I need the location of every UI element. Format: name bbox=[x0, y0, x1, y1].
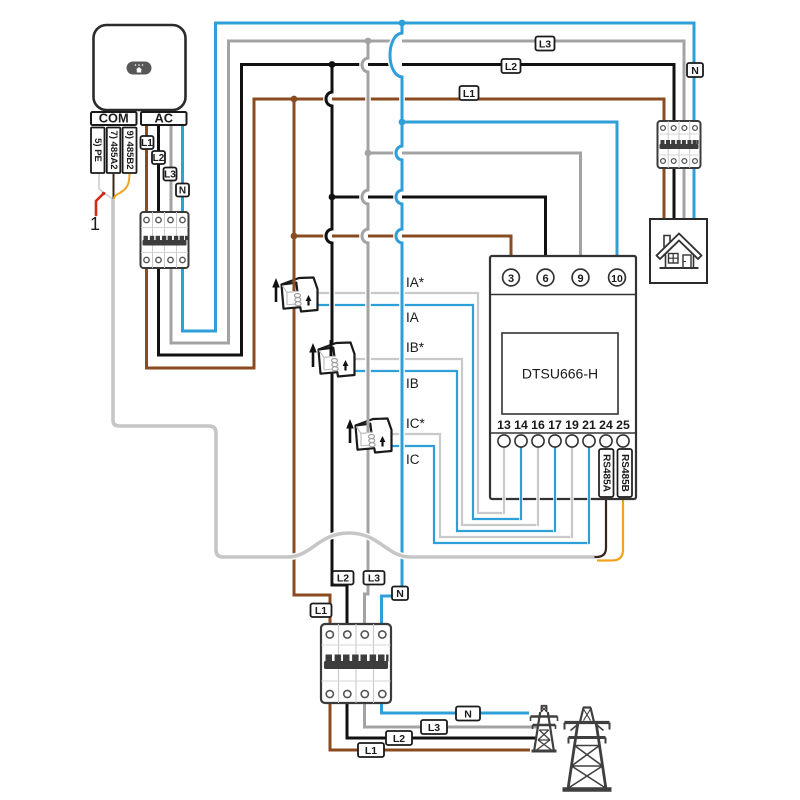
svg-text:16: 16 bbox=[531, 418, 545, 432]
CT C current transformer on L3 bbox=[346, 416, 391, 453]
svg-text:6: 6 bbox=[542, 273, 548, 285]
wire riser terminal 17 bbox=[553, 447, 557, 532]
wire PE white bbox=[99, 174, 113, 200]
label N (above bottom breaker) bbox=[392, 587, 408, 601]
wire IC (CT C blue to terminal 21) bbox=[391, 446, 589, 543]
label L3 (above bottom breaker) bbox=[364, 571, 385, 585]
svg-text:L1: L1 bbox=[463, 88, 475, 100]
label L2 (above bottom breaker) bbox=[333, 571, 354, 585]
svg-text:1: 1 bbox=[90, 214, 100, 234]
meter terminal 10 bbox=[609, 269, 626, 286]
meter bottom terminal numbers bbox=[497, 418, 630, 432]
svg-text:L1: L1 bbox=[141, 138, 153, 149]
svg-text:14: 14 bbox=[514, 418, 528, 432]
house load box bbox=[650, 219, 707, 283]
svg-text:COM: COM bbox=[99, 111, 129, 126]
svg-text:IB: IB bbox=[406, 376, 419, 391]
svg-text:N: N bbox=[691, 65, 699, 77]
CT B current transformer on L2 bbox=[309, 340, 354, 377]
CT A current transformer on L1 bbox=[272, 275, 317, 312]
wire IA (CT A blue to terminal 14) bbox=[317, 305, 521, 519]
grid tower small bbox=[531, 706, 558, 752]
RS485B port label bbox=[618, 449, 633, 497]
label L3 (inverter AC) bbox=[164, 168, 177, 181]
label N (top bus right) bbox=[687, 63, 703, 77]
svg-text:L3: L3 bbox=[428, 722, 440, 734]
svg-text:21: 21 bbox=[582, 418, 596, 432]
RS485 communication cable (thick gray) from COM to meter bbox=[113, 199, 595, 557]
svg-text:L3: L3 bbox=[368, 573, 380, 585]
svg-text:9: 9 bbox=[577, 273, 583, 285]
junction node L3 meter branch bbox=[365, 150, 372, 157]
callout wire 1 (red) bbox=[96, 194, 104, 216]
svg-text:IC: IC bbox=[406, 452, 420, 467]
meter terminal 3 bbox=[503, 269, 520, 286]
wire N blue branch: down with hops, to bottom breaker, grid bbox=[382, 23, 530, 713]
wire L2 black branch to meter terminal 6 bbox=[332, 197, 546, 270]
house icon bbox=[657, 234, 702, 269]
meter display DTSU666-H bbox=[502, 333, 618, 414]
wire L3 gray: inverter AC through breaker, U-turn, top bus, right breaker, house bbox=[171, 41, 684, 343]
label L1 (top bus) bbox=[460, 86, 479, 100]
wire IC* (CT C white to terminal 19) bbox=[391, 434, 572, 537]
wire L1 brown branch to meter terminal 3 bbox=[294, 236, 511, 270]
wire RS485A dark brown from terminal 24 bbox=[595, 496, 607, 557]
junction node L3 top bbox=[365, 38, 372, 45]
meter terminal 6 bbox=[537, 269, 554, 286]
svg-text:L2: L2 bbox=[153, 153, 165, 164]
label L3 (grid line) bbox=[421, 720, 447, 734]
wire L2 black branch: down with hops to CT B, bottom breaker, grid bbox=[326, 65, 536, 739]
label L1 (inverter AC) bbox=[141, 136, 154, 149]
wire riser terminal 14 bbox=[519, 447, 523, 520]
wire N blue: inverter AC through breaker, U-turn, top bus, right breaker, house bbox=[183, 23, 695, 331]
svg-text:AC: AC bbox=[154, 111, 172, 126]
label L1 (grid line) bbox=[358, 743, 384, 757]
svg-text:IC*: IC* bbox=[406, 416, 426, 431]
COM port box bbox=[91, 111, 137, 126]
wire L3 gray branch to meter terminal 9 bbox=[368, 153, 581, 270]
label L1 (above bottom breaker) bbox=[311, 604, 332, 618]
wire RS485B orange from terminal 25 bbox=[597, 496, 623, 561]
svg-text:10: 10 bbox=[611, 273, 623, 285]
svg-text:13: 13 bbox=[497, 418, 511, 432]
svg-text:L3: L3 bbox=[539, 38, 551, 50]
circuit breaker NFB3 (bottom, grid side) bbox=[321, 624, 391, 703]
energy meter U1 DTSU666-H bbox=[490, 256, 636, 499]
svg-text:24: 24 bbox=[599, 418, 613, 432]
junction node N meter branch bbox=[399, 119, 406, 126]
label L2 (grid line) bbox=[386, 731, 412, 745]
svg-text:25: 25 bbox=[616, 418, 630, 432]
svg-text:7) 485A2: 7) 485A2 bbox=[108, 130, 119, 169]
inverter body bbox=[94, 25, 186, 110]
junction node N top bbox=[399, 20, 406, 27]
svg-text:RS485A: RS485A bbox=[601, 454, 612, 492]
AC port box bbox=[141, 111, 187, 126]
wire L2 black: inverter AC through breaker, U-turn, top bus, right breaker, house bbox=[159, 65, 675, 356]
svg-text:5) PE: 5) PE bbox=[92, 138, 103, 162]
RS485A port label bbox=[599, 449, 614, 497]
inverter logo pill bbox=[127, 62, 152, 75]
pin 5) PE bbox=[91, 128, 105, 174]
label L2 (inverter AC) bbox=[152, 151, 165, 164]
wire RS485B2 orange bbox=[114, 174, 130, 200]
label N (inverter AC) bbox=[176, 184, 189, 197]
label L2 (top bus) bbox=[502, 59, 521, 73]
grid tower large bbox=[563, 708, 612, 790]
wire IA* (CT A white to terminal 13) bbox=[317, 293, 504, 513]
svg-text:IA: IA bbox=[406, 310, 419, 325]
wire IB* (CT B white to terminal 16) bbox=[354, 359, 538, 525]
svg-text:IA*: IA* bbox=[406, 275, 425, 290]
circuit breaker NFB1 (below inverter AC) bbox=[141, 212, 189, 268]
wire N blue branch to meter terminal 10 bbox=[402, 122, 617, 270]
wire L3 gray branch: down with hops to CT C, bottom breaker, grid bbox=[362, 41, 538, 727]
pin 9) 485B2 bbox=[123, 128, 137, 174]
svg-text:3: 3 bbox=[508, 273, 514, 285]
pin 7) 485A2 bbox=[107, 128, 121, 174]
svg-text:DTSU666-H: DTSU666-H bbox=[522, 366, 598, 382]
wire IB (CT B blue to terminal 17) bbox=[354, 371, 555, 531]
svg-text:N: N bbox=[396, 588, 404, 600]
label N (grid line) bbox=[456, 707, 480, 721]
junction node L2 top bbox=[329, 61, 336, 68]
svg-text:17: 17 bbox=[548, 418, 562, 432]
wire L1 brown branch: down to CT A, bottom breaker, to grid bbox=[294, 99, 530, 750]
wire riser terminal 13 bbox=[502, 447, 506, 514]
wire riser terminal 19 bbox=[570, 447, 574, 538]
svg-text:RS485B: RS485B bbox=[619, 454, 630, 492]
junction node L1 meter branch bbox=[291, 233, 298, 240]
svg-text:L2: L2 bbox=[393, 733, 405, 745]
junction node L2 meter branch bbox=[329, 194, 336, 201]
label L3 (top bus) bbox=[536, 37, 555, 51]
svg-text:IB*: IB* bbox=[406, 340, 425, 355]
svg-text:9) 485B2: 9) 485B2 bbox=[124, 130, 135, 169]
svg-text:19: 19 bbox=[565, 418, 579, 432]
svg-text:N: N bbox=[179, 186, 186, 197]
meter terminal 9 bbox=[572, 269, 589, 286]
wire RS485A2 dark brown bbox=[113, 174, 115, 200]
svg-text:L3: L3 bbox=[164, 170, 176, 181]
wire riser terminal 16 bbox=[536, 447, 540, 526]
svg-text:L1: L1 bbox=[365, 745, 377, 757]
circuit breaker NFB2 (top right) bbox=[658, 121, 701, 168]
svg-text:N: N bbox=[464, 708, 472, 720]
meter bottom terminal circles 13-25 bbox=[498, 435, 629, 447]
junction node L1 top bbox=[291, 96, 298, 103]
wire L1 brown: inverter AC through breaker, U-turn, top bus, to right breaker and house bbox=[147, 99, 665, 368]
wire riser terminal 21 bbox=[587, 447, 591, 544]
svg-text:L1: L1 bbox=[315, 605, 327, 617]
svg-text:L2: L2 bbox=[337, 573, 349, 585]
svg-text:L2: L2 bbox=[505, 61, 517, 73]
